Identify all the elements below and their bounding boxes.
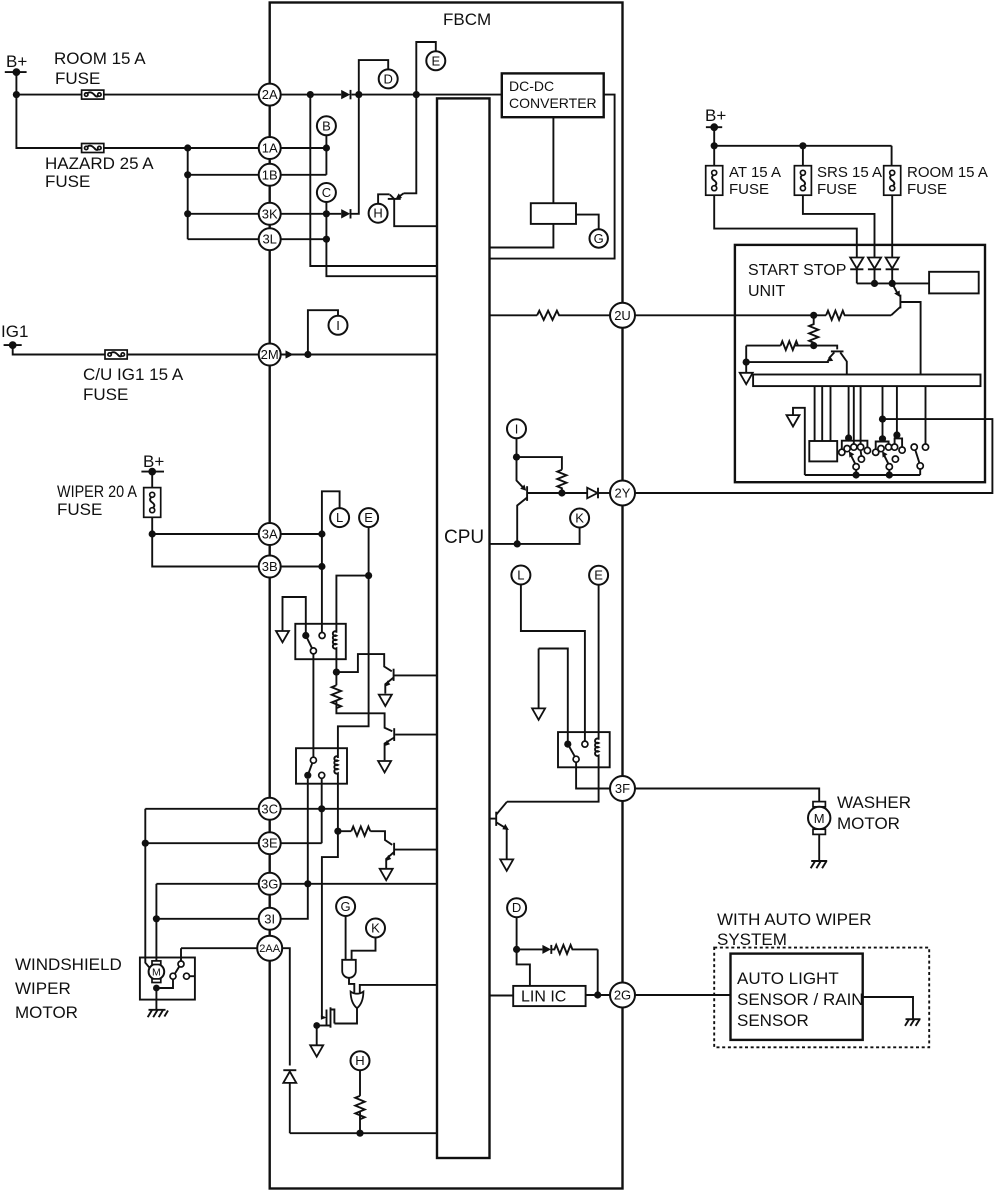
svg-text:SENSOR: SENSOR	[737, 1011, 809, 1030]
svg-text:2M: 2M	[261, 347, 279, 362]
svg-text:WITH AUTO WIPER: WITH AUTO WIPER	[717, 910, 872, 929]
svg-text:1B: 1B	[262, 167, 278, 182]
node bottom row	[356, 1130, 363, 1137]
FBCM module box	[270, 3, 623, 1189]
dashed box auto wiper	[714, 948, 929, 1048]
pin 2Y	[610, 481, 635, 506]
pin 2M	[259, 344, 281, 366]
node 2A row x416.3	[413, 91, 420, 98]
wire 2U row from CPU	[490, 314, 538, 316]
svg-text:D: D	[512, 900, 521, 915]
pin 3A	[259, 523, 281, 545]
node R-2Y bottom	[558, 489, 565, 496]
ground ssu left	[740, 373, 753, 384]
wire 2AA row left to motor switch	[181, 948, 257, 961]
net D	[379, 69, 398, 88]
resistor R-2U	[537, 311, 610, 320]
svg-text:2AA: 2AA	[259, 943, 280, 955]
svg-text:WINDSHIELD: WINDSHIELD	[15, 955, 122, 974]
node cluster1 top	[845, 434, 852, 441]
relay K3 box	[558, 732, 610, 767]
relay K2 coil	[334, 756, 338, 784]
wire bus drop c	[830, 386, 832, 441]
wire C vertical down to CPU	[326, 202, 437, 276]
svg-text:H: H	[355, 1053, 364, 1068]
node rail d3	[889, 280, 896, 287]
ground ssu small	[787, 415, 800, 426]
wire K2 second contact down to 3E	[321, 778, 323, 843]
diode 2AA up	[283, 1070, 296, 1083]
svg-text:3A: 3A	[262, 527, 278, 542]
wire 2G to sensor	[635, 994, 731, 996]
svg-text:G: G	[594, 231, 604, 246]
svg-text:I: I	[336, 318, 340, 333]
svg-text:K: K	[575, 511, 584, 526]
wire Q2 emitter row	[746, 346, 829, 363]
node I2	[513, 454, 520, 461]
B+ terminal top-left	[5, 52, 28, 76]
svg-text:3I: 3I	[264, 911, 275, 926]
node 3I left	[153, 915, 160, 922]
wire bus drop b	[821, 386, 823, 441]
net D lower	[507, 898, 526, 917]
net E right	[589, 566, 608, 585]
wire E stub	[416, 42, 436, 95]
wire 3L row	[188, 238, 270, 240]
wire CPU to OR in	[360, 985, 437, 993]
wire OR out to mosfet drain	[334, 1008, 357, 1023]
wire relay box bottom to CPU	[490, 224, 554, 248]
wire K row	[490, 528, 580, 544]
node rail d2	[871, 280, 878, 287]
node C on 3L row	[323, 236, 330, 243]
wire 1A row	[188, 147, 270, 149]
svg-text:2U: 2U	[614, 308, 631, 323]
wire D stub	[359, 60, 388, 95]
relay box under DC-DC	[531, 203, 576, 224]
wire 1B row	[188, 174, 270, 176]
transistor Q1 ssu pnp	[891, 283, 921, 374]
wire coil1 bottom to node	[335, 659, 337, 685]
svg-text:I: I	[515, 421, 519, 436]
svg-text:3F: 3F	[615, 781, 630, 796]
fuse WIPER 20 A vertical	[57, 482, 161, 519]
wire 1B row to B vertical	[270, 174, 327, 176]
resistor R-LIN	[551, 945, 597, 954]
wire 2U row into ssu	[623, 314, 892, 316]
node cluster2 top a	[879, 435, 886, 442]
node E2 coil1 branch	[365, 572, 372, 579]
relay K2 box	[296, 748, 347, 784]
net G	[590, 229, 608, 247]
svg-text:SYSTEM: SYSTEM	[717, 930, 787, 949]
wire E2 rail down to relay2 coil	[338, 527, 369, 758]
wire bus drop i	[925, 386, 927, 444]
motor M windshield	[149, 961, 165, 983]
diode D3 ssu	[886, 258, 899, 284]
washer motor M	[808, 793, 911, 834]
svg-text:MOTOR: MOTOR	[15, 1003, 78, 1022]
node 2A row x310	[307, 91, 314, 98]
node 2A row x358.8	[355, 91, 362, 98]
svg-text:SENSOR / RAIN: SENSOR / RAIN	[737, 990, 864, 1009]
node feeder 3K	[184, 210, 191, 217]
resistor R-left ssu	[781, 341, 798, 350]
wire 2AA row right	[282, 948, 290, 1065]
wire I2 node to resistor	[517, 457, 562, 470]
wire washer motor to ground	[818, 834, 820, 861]
svg-text:FBCM: FBCM	[443, 10, 491, 29]
svg-text:CPU: CPU	[444, 527, 484, 548]
svg-text:3C: 3C	[261, 801, 278, 816]
node emitter left	[743, 359, 750, 366]
node mid ssu	[810, 342, 817, 349]
switch cluster2 contacts	[873, 444, 906, 470]
resistor R-2U ssu	[826, 311, 845, 320]
switch right pair	[911, 444, 929, 475]
node 2Y link	[879, 416, 886, 423]
node 3B row right	[318, 563, 325, 570]
wire common left up	[793, 408, 805, 475]
wire base row ssu	[746, 346, 837, 350]
svg-text:L: L	[336, 510, 343, 525]
svg-text:HAZARD 25 A: HAZARD 25 A	[45, 154, 154, 173]
fuse HAZARD 25 A	[45, 144, 154, 192]
svg-text:C: C	[322, 185, 331, 200]
wire B+ down to ROOM row	[15, 72, 17, 95]
node 3E left	[142, 840, 149, 847]
wire bottom row	[290, 1132, 437, 1134]
wire AT fuse to diode1	[714, 195, 857, 257]
wire resistor to bottom row	[359, 1112, 361, 1133]
node SRS tap	[799, 142, 806, 149]
net H	[369, 204, 388, 223]
motor park switch	[153, 961, 195, 991]
svg-text:LIN IC: LIN IC	[521, 989, 566, 1006]
wire K2 armature down to 3G	[307, 779, 309, 884]
node 2M row	[304, 351, 311, 358]
ground T2	[378, 761, 391, 772]
transistor Q-2Y pnp	[517, 457, 588, 544]
node fuse junction	[149, 530, 156, 537]
wire bus drop a	[814, 386, 816, 441]
net K mid	[570, 509, 589, 528]
svg-text:E: E	[364, 510, 373, 525]
wire motor to chassis ground	[155, 988, 157, 1010]
pin 3E	[259, 832, 281, 854]
relay K1 armature	[302, 632, 325, 654]
transistor Q2 ssu npn	[827, 351, 847, 374]
svg-text:START STOP: START STOP	[748, 262, 846, 279]
diode D2 ssu	[868, 258, 881, 284]
pin 3B	[259, 556, 281, 578]
switch arm2	[882, 451, 893, 478]
wire bus drop d	[848, 386, 850, 438]
wire 3G left drop	[155, 884, 157, 919]
relay K3 coil	[595, 739, 599, 768]
ground relay3	[532, 708, 545, 719]
svg-text:K: K	[371, 921, 380, 936]
pin 3L	[259, 228, 281, 250]
wire 3K row	[188, 213, 270, 215]
wire I2 stub	[516, 438, 518, 457]
node 3G right	[304, 880, 311, 887]
auto light sensor box	[731, 954, 864, 1040]
wire emitter node down	[745, 362, 747, 372]
wire D2 stub	[516, 917, 518, 949]
wire SRS fuse to diode2	[803, 195, 875, 257]
svg-text:2Y: 2Y	[615, 486, 631, 501]
svg-text:FUSE: FUSE	[817, 181, 857, 198]
pin 2U	[610, 303, 635, 328]
wire DC-DC right loop to CPU	[490, 95, 615, 259]
diode D-2Y	[587, 488, 610, 499]
svg-text:G: G	[341, 899, 351, 914]
wire T1 collector path	[336, 654, 391, 672]
wire sensor to ground	[863, 997, 913, 1019]
switch arm1	[849, 451, 860, 478]
diode on 3K row	[341, 209, 350, 218]
svg-text:ROOM 15 A: ROOM 15 A	[54, 49, 146, 68]
svg-text:H: H	[373, 206, 382, 221]
wire cluster2 bracket a	[876, 439, 889, 449]
node D2	[513, 946, 520, 953]
wire cluster1 bracket	[842, 438, 868, 449]
fuse ROOM 15 A right	[884, 164, 988, 198]
node B on 1A row	[323, 144, 330, 151]
wire source to ground	[316, 1026, 318, 1045]
node T1 collector junction	[333, 669, 340, 676]
wire 3C left drop to motor	[145, 809, 150, 969]
svg-text:M: M	[152, 967, 161, 979]
svg-text:FUSE: FUSE	[55, 69, 100, 88]
ground K1	[276, 631, 289, 642]
wire bus drop h	[896, 386, 898, 435]
transistor T2 npn	[384, 728, 437, 760]
label windshield wiper motor	[15, 955, 122, 1022]
svg-text:3L: 3L	[262, 232, 276, 247]
net H lower	[351, 1051, 370, 1070]
chassis ground motor	[148, 1010, 168, 1017]
pin 3C	[259, 798, 281, 820]
svg-text:DC-DC: DC-DC	[509, 78, 554, 94]
wire 3K row to diode	[270, 213, 342, 215]
net E	[426, 51, 445, 70]
wire 2M row to CPU	[270, 354, 437, 356]
wire fuse to 3A row	[152, 517, 322, 534]
node mosfet source	[313, 1022, 320, 1029]
arrow after 2M	[286, 350, 294, 358]
wire D2 node to diode	[517, 948, 543, 950]
pin 2G	[610, 983, 635, 1008]
svg-text:ROOM 15 A: ROOM 15 A	[907, 164, 988, 181]
svg-text:FUSE: FUSE	[45, 172, 90, 191]
node C on 3K row	[323, 210, 330, 217]
wire H2 stub to resistor	[359, 1070, 361, 1096]
mosfet Q4	[317, 1007, 335, 1027]
svg-text:C/U IG1 15 A: C/U IG1 15 A	[83, 365, 184, 384]
bus bar ssu	[753, 375, 980, 387]
node 2U tap	[810, 312, 817, 319]
pin 1A	[259, 137, 281, 159]
diode D-LIN	[542, 945, 551, 954]
svg-text:AT 15 A: AT 15 A	[729, 164, 781, 181]
pin 3I	[259, 908, 281, 930]
wire B+ to wiper fuse	[151, 472, 153, 488]
net E wiper	[359, 508, 378, 527]
svg-text:3K: 3K	[262, 206, 278, 221]
box ssu top right	[929, 272, 979, 294]
net I	[329, 316, 348, 335]
component box ssu	[809, 441, 837, 461]
net C	[317, 183, 336, 202]
svg-text:AUTO LIGHT: AUTO LIGHT	[737, 969, 839, 988]
wire hazard feeder vertical	[187, 148, 189, 239]
fuse ROOM 15 A	[54, 49, 146, 99]
resistor R-2Y	[557, 470, 566, 493]
node feeder 1A	[184, 144, 191, 151]
svg-text:B+: B+	[6, 52, 27, 71]
wire 2AA diode lower	[289, 1077, 291, 1134]
wire 3G row	[156, 883, 437, 885]
CPU box	[437, 98, 490, 1158]
wire R1 bottom to T2 collector	[336, 700, 392, 731]
net B	[317, 116, 336, 135]
wire 3L row to C vertical	[270, 238, 327, 240]
wire ROOM 15A row to pin 2A	[16, 94, 269, 96]
net G lower	[336, 897, 355, 916]
DC-DC converter box	[502, 73, 604, 117]
node B+ right	[711, 142, 718, 149]
wire L stub left	[322, 491, 340, 632]
wire bus drop f	[860, 386, 863, 456]
wire K1 armature to ground	[283, 597, 306, 632]
wire E rail down to transistor	[404, 95, 417, 194]
wire B stub	[325, 135, 327, 175]
wire cluster2 bracket b	[895, 435, 903, 447]
wire B+ right rail	[714, 127, 891, 166]
svg-text:2A: 2A	[262, 87, 278, 102]
chassis ground sensor	[905, 1019, 921, 1026]
svg-text:D: D	[384, 71, 393, 86]
wire relay box right to G	[576, 215, 599, 230]
svg-text:B+: B+	[705, 106, 726, 125]
svg-text:FUSE: FUSE	[83, 385, 128, 404]
B+ terminal wiper	[141, 452, 164, 476]
svg-text:3G: 3G	[261, 876, 278, 891]
wire K1 contact to K2 contact	[312, 654, 314, 757]
net K lower	[366, 919, 385, 938]
wire 3K diode up to 2A row	[351, 95, 359, 214]
resistor R3	[351, 827, 370, 836]
label with auto wiper system	[717, 910, 872, 949]
net L right	[511, 566, 530, 585]
wire bus drop g 2Y link	[882, 386, 884, 439]
wire resistor down to 2G row	[597, 949, 599, 995]
fuse SRS 15 A	[794, 164, 882, 198]
net I mid	[507, 419, 526, 438]
wire DC-DC bottom to relay box	[552, 117, 554, 203]
svg-text:M: M	[814, 811, 825, 826]
wire D2 node to LIN IC top	[517, 949, 530, 986]
node 3A row right	[318, 530, 325, 537]
wire diode rail	[857, 282, 929, 284]
wire CPU to LIN IC	[490, 995, 514, 997]
wire K3 contact to 3F	[576, 762, 610, 788]
wire bus drop e	[853, 386, 855, 444]
svg-text:WIPER: WIPER	[15, 979, 71, 998]
fuse AT 15 A	[706, 164, 781, 198]
wire 3I row	[156, 884, 307, 919]
resistor R-H vertical	[355, 1096, 364, 1119]
svg-text:FUSE: FUSE	[57, 500, 102, 519]
wire LIN IC to 2G	[586, 994, 623, 996]
pin 3F	[610, 776, 635, 801]
wire 2A row inside FBCM	[270, 94, 502, 96]
transistor Q-washer npn	[490, 802, 509, 859]
wire coil2 bottom to node	[322, 784, 338, 1018]
relay K1 coil	[333, 631, 337, 659]
node feeder 1B	[184, 171, 191, 178]
wire G2 stub	[345, 916, 347, 960]
wire I stub near 2M	[308, 310, 338, 354]
wire K2letter stub	[352, 938, 376, 960]
B+ terminal right	[705, 106, 726, 131]
wire node B feed down to CPU	[310, 95, 437, 266]
wire ground branch relay3	[539, 649, 568, 741]
wire coil1 branch	[336, 576, 368, 633]
ground Q-washer	[500, 859, 513, 870]
svg-text:3E: 3E	[262, 836, 278, 851]
svg-text:WASHER: WASHER	[837, 793, 911, 812]
AND gate	[342, 960, 356, 978]
pin 2A	[259, 84, 281, 106]
chassis ground washer	[811, 861, 828, 868]
resistor R-vert ssu	[809, 315, 818, 345]
svg-text:WIPER 20 A: WIPER 20 A	[57, 482, 138, 501]
node B+ junction	[13, 91, 20, 98]
pin 1B	[259, 164, 281, 186]
svg-text:2G: 2G	[614, 988, 631, 1003]
transistor Q-H pnp	[378, 193, 437, 226]
windshield wiper motor box	[140, 958, 195, 1000]
svg-text:L: L	[517, 568, 524, 583]
node K row	[514, 540, 521, 547]
svg-text:3B: 3B	[262, 559, 278, 574]
svg-text:MOTOR: MOTOR	[837, 814, 900, 833]
net L	[330, 508, 349, 527]
wire switch common	[805, 474, 920, 476]
relay K2 armature	[304, 757, 325, 779]
node T3 resistor junction	[334, 828, 341, 835]
svg-text:IG1: IG1	[1, 322, 28, 341]
wire 3C row	[145, 808, 437, 810]
wire AND out to OR in	[349, 978, 354, 993]
wire E3 drop	[598, 585, 600, 740]
ground T1	[379, 695, 392, 706]
svg-text:UNIT: UNIT	[748, 283, 786, 300]
node LIN right	[594, 991, 601, 998]
switch cluster1 contacts	[839, 444, 871, 470]
node 3C row	[318, 805, 325, 812]
resistor R1 vertical	[332, 685, 341, 708]
pin 3G	[259, 873, 281, 895]
wire 1A row to node B	[270, 147, 327, 149]
svg-text:B+: B+	[143, 452, 164, 471]
svg-text:FUSE: FUSE	[729, 181, 769, 198]
pin 2AA	[257, 936, 282, 961]
wire ROOM fuse to diode3	[891, 195, 893, 257]
